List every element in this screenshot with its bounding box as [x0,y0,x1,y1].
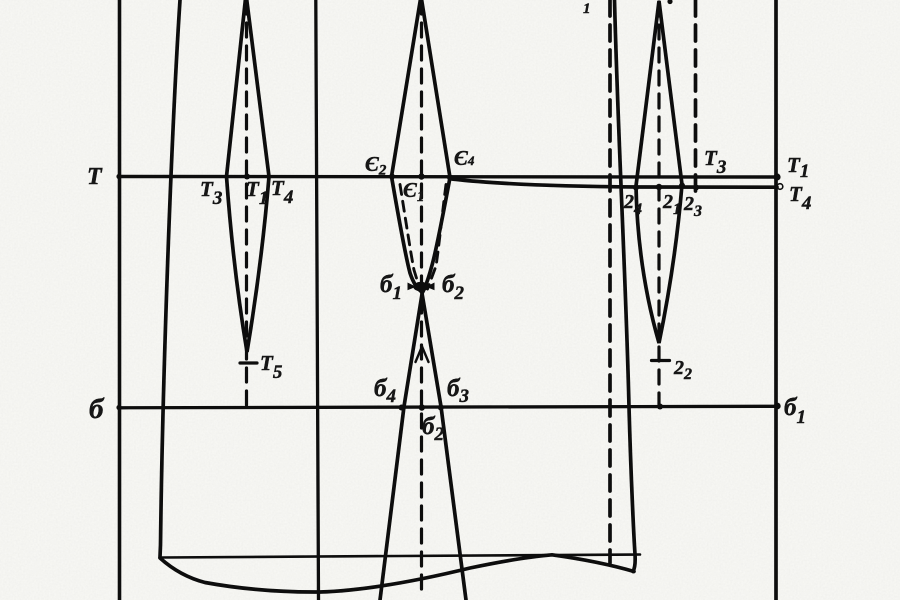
svg-text:б: б [89,393,105,425]
svg-text:1: 1 [583,1,591,17]
svg-text:Т: Т [87,164,103,190]
